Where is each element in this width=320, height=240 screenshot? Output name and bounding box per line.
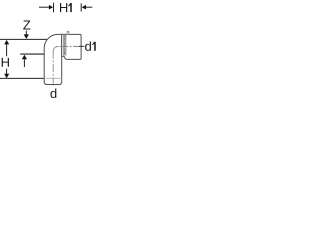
- extension line B (mid reference, y=54): [20, 53, 44, 55]
- dimension H arrows and line: [4, 40, 9, 78]
- dimension Z lower arrow: [22, 55, 27, 67]
- extension line C grey continuation through pipe (over fill): [44, 77, 62, 79]
- extension line C (bottom reference, y=78.3): [0, 77, 44, 79]
- socket printed label band: [63, 35, 67, 56]
- dimension label H1: [60, 3, 72, 12]
- elbow fitting outline: [44, 34, 81, 84]
- horizontal centerline (dash-dot grey): [56, 46, 80, 48]
- small mark above socket: [67, 31, 69, 34]
- socket seam line: [61, 35, 63, 57]
- dimension H1 right arrow: [81, 3, 92, 11]
- d1 leader tick across socket face: [79, 45, 84, 47]
- dimension label H: [2, 58, 9, 67]
- vertical centerline of pipe (dash-dot grey): [52, 51, 54, 88]
- spigot bottom face: [46, 84, 61, 86]
- centerline bend arc: [53, 47, 58, 52]
- dimension H1 left arrow: [39, 3, 54, 13]
- dimension Z upper arrow: [24, 31, 29, 39]
- dimension label d: [50, 88, 56, 98]
- dimension label Z: [23, 21, 30, 30]
- dimension label d1: [85, 41, 96, 51]
- extension line A (top reference, y=39.3): [0, 38, 47, 40]
- background: [0, 0, 101, 101]
